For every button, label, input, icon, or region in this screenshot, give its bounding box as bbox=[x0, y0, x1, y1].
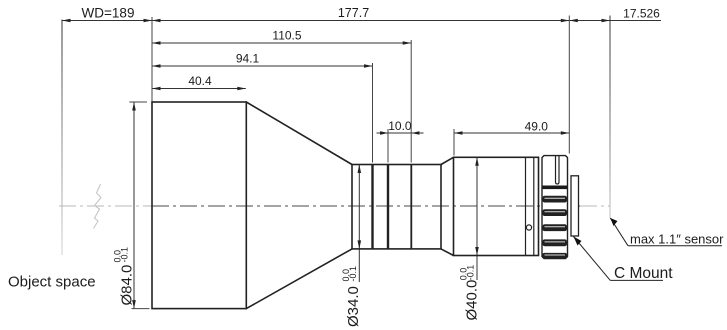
svg-text:Ø84.0: Ø84.0 bbox=[119, 265, 136, 306]
lens body bbox=[152, 102, 539, 309]
sensor plane line bbox=[609, 16, 611, 219]
dimension WD=189 bbox=[62, 6, 152, 23]
svg-text:40.4: 40.4 bbox=[188, 74, 212, 88]
svg-text:177.7: 177.7 bbox=[338, 6, 369, 20]
extension lines bbox=[129, 16, 569, 309]
svg-text:Object space: Object space bbox=[8, 274, 96, 291]
object plane line bbox=[61, 20, 63, 256]
dia 34 dimension line bbox=[341, 165, 362, 328]
small barrel phi34 bbox=[352, 165, 441, 249]
dimension 94.1 bbox=[152, 52, 373, 68]
knurl bands bbox=[542, 196, 567, 259]
dimension 49.0 bbox=[454, 120, 569, 135]
svg-text:-0.1: -0.1 bbox=[466, 265, 476, 281]
svg-text:Ø40.0: Ø40.0 bbox=[463, 280, 480, 321]
barrel phi40 bbox=[454, 157, 539, 255]
svg-text:C Mount: C Mount bbox=[614, 265, 673, 282]
dia 40 dimension line bbox=[459, 157, 481, 320]
svg-text:94.1: 94.1 bbox=[236, 52, 260, 66]
chamfer bottom bbox=[441, 249, 454, 256]
dia 84 dimension line bbox=[112, 102, 135, 309]
cone bottom bbox=[246, 249, 352, 309]
svg-text:-0.1: -0.1 bbox=[119, 247, 129, 263]
svg-text:49.0: 49.0 bbox=[525, 120, 549, 134]
ring lines bbox=[371, 165, 373, 249]
dimension 10.0 bbox=[377, 119, 424, 135]
mount plate bbox=[571, 176, 579, 236]
slot bbox=[556, 156, 560, 184]
big barrel bbox=[152, 102, 246, 309]
screw hole bbox=[526, 225, 531, 230]
max sensor leader bbox=[610, 218, 724, 247]
svg-text:10.0: 10.0 bbox=[388, 119, 412, 133]
break squiggle bbox=[94, 184, 102, 229]
dimension 177.7 bbox=[152, 6, 569, 22]
svg-text:17.526: 17.526 bbox=[623, 7, 660, 21]
cone top bbox=[246, 102, 352, 165]
C Mount leader bbox=[574, 237, 674, 283]
svg-text:WD=189: WD=189 bbox=[82, 6, 135, 21]
chamfer top bbox=[441, 157, 454, 164]
svg-text:110.5: 110.5 bbox=[272, 29, 301, 43]
dimension 40.4 bbox=[152, 74, 246, 90]
svg-text:Ø34.0: Ø34.0 bbox=[345, 286, 362, 327]
dimension 110.5 bbox=[152, 29, 411, 45]
svg-text:-0.1: -0.1 bbox=[348, 266, 358, 282]
dimension 17.526 bbox=[569, 7, 661, 23]
svg-text:max 1.1″ sensor: max 1.1″ sensor bbox=[630, 232, 724, 247]
lock ring bbox=[542, 156, 568, 259]
centerline bbox=[59, 205, 610, 207]
